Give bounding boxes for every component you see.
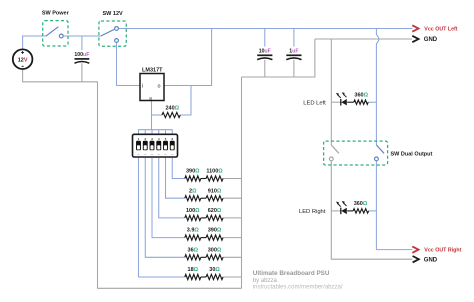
- svg-text:18Ω: 18Ω: [188, 267, 199, 273]
- wire LED Left to 360 ohm: [347, 101, 354, 103]
- LED D2 Right: [336, 201, 347, 214]
- svg-text:36Ω: 36Ω: [188, 247, 199, 253]
- wire 10uF top tap: [264, 29, 266, 47]
- wire 1uF top tap: [293, 29, 295, 47]
- wire GND branch to LED Left: [331, 101, 340, 103]
- wire SW 12V lower throw to LM317 input: [117, 42, 141, 85]
- svg-text:a: a: [149, 95, 152, 100]
- port Vcc OUT Right: [412, 246, 461, 253]
- wire 100uF top tap: [81, 36, 83, 50]
- wire 100uF bottom: [81, 63, 83, 82]
- resistor row6 left 18Ω: [185, 267, 201, 280]
- svg-text:3.9Ω: 3.9Ω: [187, 228, 200, 234]
- resistor row5 left 36Ω: [185, 247, 201, 260]
- capacitor C1 100uF: [74, 52, 89, 63]
- capacitor C2 10uF: [257, 49, 272, 60]
- wire 10uF bottom: [264, 60, 266, 77]
- wire main Vcc rail: [118, 28, 412, 30]
- wire 12V to SW Power: [22, 35, 46, 37]
- svg-text:240Ω: 240Ω: [165, 105, 179, 111]
- wire row 6 middle lead: [201, 276, 206, 278]
- wire row 3 middle lead: [201, 217, 206, 219]
- regulator U1 LM317T: [140, 67, 164, 100]
- resistor R2 360 360Ω: [354, 92, 369, 104]
- svg-text:on: on: [151, 154, 153, 156]
- svg-text:on: on: [144, 154, 146, 156]
- svg-text:by abzza: by abzza: [253, 278, 278, 284]
- switch SW Power enclosure: [43, 21, 68, 46]
- svg-text:on: on: [137, 154, 139, 156]
- resistor row4 left 3.9Ω: [185, 228, 201, 241]
- resistor R3 360 360Ω: [353, 201, 369, 213]
- port Vcc OUT Left: [412, 25, 457, 32]
- svg-text:300Ω: 300Ω: [208, 247, 222, 253]
- svg-text:360Ω: 360Ω: [354, 92, 368, 98]
- svg-text:LED Right: LED Right: [299, 209, 326, 215]
- resistor row2 left 2Ω: [185, 188, 201, 201]
- switch SW Dual Output left pole: [329, 145, 339, 161]
- wire SW Dual Output left throw to GND right: [331, 161, 412, 259]
- wire resistor row 6 to ground bus: [223, 276, 242, 278]
- resistor row3 left 100Ω: [185, 208, 201, 221]
- label LED Right: [299, 209, 326, 215]
- svg-text:i: i: [142, 84, 143, 90]
- svg-text:1uF: 1uF: [289, 49, 298, 55]
- wire LM317 adjust to 240 ohm and DIP bus: [152, 101, 163, 130]
- svg-text:30Ω: 30Ω: [209, 267, 220, 273]
- svg-text:Vcc OUT Right: Vcc OUT Right: [424, 248, 461, 254]
- svg-text:on: on: [164, 154, 166, 156]
- svg-text:910Ω: 910Ω: [208, 188, 222, 194]
- wire LED Left resistor to Vcc branch: [368, 101, 376, 103]
- wire row 1 middle lead: [201, 178, 206, 180]
- switch SW 12V lever and throws: [101, 27, 119, 43]
- wire SW Power to SW 12V: [63, 35, 101, 37]
- wire GND branch to LED Right: [331, 210, 340, 212]
- resistor row4 right 390Ω: [206, 228, 223, 241]
- switch SW Power lever: [46, 27, 63, 38]
- svg-text:Ultimate Breadboard PSU: Ultimate Breadboard PSU: [253, 270, 330, 277]
- wire row 5 middle lead: [201, 256, 206, 258]
- wire LED Right resistor to Vcc branch: [369, 210, 377, 212]
- switch SW 12V label: [103, 11, 124, 17]
- wire ground bus right vertical: [241, 77, 243, 288]
- DIP switch SW3 6-position: [133, 134, 178, 157]
- wire LM317 output to rail: [164, 29, 212, 86]
- label LED Left: [303, 100, 326, 106]
- wire GND branch down to SW Dual Output: [330, 39, 332, 145]
- svg-text:620Ω: 620Ω: [208, 208, 222, 214]
- wire resistor row 4 to ground bus: [223, 237, 242, 239]
- resistor row6 right 30Ω: [206, 267, 223, 280]
- svg-text:SW Power: SW Power: [42, 11, 70, 17]
- svg-text:GND: GND: [424, 37, 438, 43]
- svg-text:1100Ω: 1100Ω: [206, 169, 223, 175]
- port GND top: [412, 36, 438, 43]
- svg-text:390Ω: 390Ω: [186, 169, 200, 175]
- switch SW Dual Output label: [391, 152, 433, 158]
- voltage source 12V: [13, 49, 33, 69]
- capacitor C3 1uF: [286, 49, 301, 60]
- svg-text:SW 12V: SW 12V: [103, 11, 124, 17]
- wire 1uF bottom: [293, 60, 295, 77]
- svg-text:instructables.com/member/abzza: instructables.com/member/abzza/: [253, 285, 343, 291]
- wire resistor row 1 to ground bus: [223, 178, 242, 180]
- wire DIP top bus: [139, 130, 173, 135]
- svg-text:Vcc OUT Left: Vcc OUT Left: [424, 27, 457, 33]
- wire output to 240 ohm: [180, 86, 191, 116]
- LED D1 Left: [336, 92, 347, 105]
- wire resistor row 5 to ground bus: [223, 256, 242, 258]
- svg-text:on: on: [171, 154, 173, 156]
- wire DIP switch 4 to resistor row 3: [159, 157, 185, 218]
- switch SW Dual Output enclosure: [324, 141, 388, 165]
- wire DIP switch 1 to resistor row 6: [139, 157, 185, 277]
- svg-text:SW Dual Output: SW Dual Output: [391, 152, 433, 158]
- svg-text:GND: GND: [424, 258, 438, 264]
- resistor row3 right 620Ω: [206, 208, 223, 221]
- svg-text:o: o: [158, 84, 161, 90]
- svg-text:390Ω: 390Ω: [208, 228, 222, 234]
- svg-text:10uF: 10uF: [259, 49, 271, 55]
- wire resistor row 3 to ground bus: [223, 217, 242, 219]
- wire DIP switch 2 to resistor row 5: [145, 157, 185, 257]
- svg-text:on: on: [158, 154, 160, 156]
- resistor row1 left 390Ω: [185, 169, 201, 182]
- wire resistor row 2 to ground bus: [223, 197, 242, 199]
- wire DIP switch 5 to resistor row 2: [166, 157, 185, 198]
- switch SW 12V enclosure: [99, 21, 126, 46]
- wire GND rail to GND OUT Left: [315, 38, 412, 40]
- svg-text:12V: 12V: [18, 58, 28, 64]
- svg-text:2Ω: 2Ω: [189, 188, 197, 194]
- switch SW Dual Output right pole: [375, 145, 385, 161]
- wire row 4 middle lead: [201, 237, 206, 239]
- resistor row2 right 910Ω: [206, 188, 223, 201]
- wire capacitor ground bus: [242, 39, 315, 77]
- title text: [253, 270, 343, 291]
- resistor row5 right 300Ω: [206, 247, 223, 260]
- resistor row1 right 1100Ω: [206, 169, 223, 182]
- wire 12V+ riser: [22, 36, 24, 49]
- port GND bottom: [413, 256, 438, 264]
- wire 12V- drop: [22, 69, 24, 82]
- svg-text:100uF: 100uF: [74, 52, 89, 58]
- wire LED Right to 360 ohm: [347, 210, 353, 212]
- wire DIP switch 6 to resistor row 1: [172, 157, 185, 178]
- switch SW Power label: [42, 11, 70, 17]
- wire SW Dual Output right throw to Vcc OUT Right: [376, 161, 412, 250]
- svg-text:360Ω: 360Ω: [354, 201, 368, 207]
- svg-text:100Ω: 100Ω: [186, 208, 200, 214]
- svg-text:LM317T: LM317T: [142, 67, 163, 73]
- wire Vcc branch down with hop over GND: [376, 29, 378, 146]
- resistor R1 240Ω: [162, 105, 180, 117]
- wire ground bus left and bottom: [22, 82, 241, 288]
- wire DIP switch 3 to resistor row 4: [152, 157, 185, 238]
- svg-text:LED Left: LED Left: [303, 100, 326, 106]
- wire row 2 middle lead: [201, 197, 206, 199]
